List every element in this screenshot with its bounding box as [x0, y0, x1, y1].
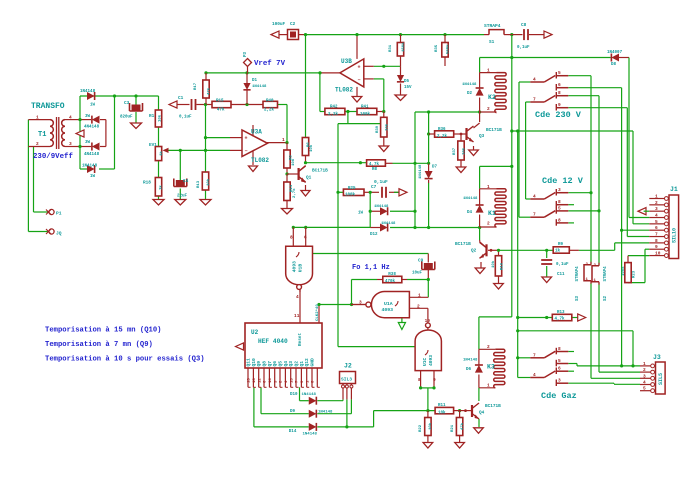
svg-text:4: 4 — [533, 194, 536, 200]
svg-text:R37: R37 — [453, 147, 457, 155]
svg-text:4: 4 — [533, 372, 536, 378]
svg-text:Q8: Q8 — [262, 361, 268, 367]
svg-text:470k: 470k — [385, 279, 396, 284]
svg-text:R25: R25 — [348, 187, 356, 191]
svg-text:Cde 230 V: Cde 230 V — [535, 110, 582, 120]
svg-text:−: − — [357, 77, 360, 83]
svg-text:K3: K3 — [487, 364, 495, 371]
svg-text:1: 1 — [36, 114, 39, 120]
svg-text:TRANSFO: TRANSFO — [31, 102, 65, 111]
svg-text:1W: 1W — [90, 175, 96, 179]
svg-text:9: 9 — [655, 244, 658, 250]
svg-text:10k: 10k — [428, 422, 433, 430]
svg-text:U3A: U3A — [251, 129, 262, 136]
svg-text:BC171B: BC171B — [455, 242, 471, 247]
svg-text:C7: C7 — [371, 185, 377, 190]
svg-text:8: 8 — [558, 346, 561, 352]
svg-text:15V: 15V — [404, 86, 412, 90]
svg-text:C4: C4 — [183, 179, 189, 184]
svg-text:R1: R1 — [149, 114, 155, 119]
svg-text:D7: D7 — [432, 166, 438, 170]
svg-text:1N4148: 1N4148 — [318, 410, 333, 414]
svg-text:R10: R10 — [501, 262, 505, 270]
svg-text:D10: D10 — [290, 393, 298, 397]
svg-text:13: 13 — [290, 378, 294, 383]
svg-text:R9: R9 — [558, 243, 564, 247]
svg-text:R15: R15 — [216, 100, 224, 104]
svg-text:10k: 10k — [385, 123, 390, 131]
svg-text:Q2: Q2 — [294, 361, 300, 367]
svg-text:100k: 100k — [360, 112, 371, 117]
svg-text:1: 1 — [655, 194, 658, 200]
svg-text:10k: 10k — [438, 411, 446, 416]
svg-text:10k: 10k — [462, 147, 467, 155]
svg-text:C3: C3 — [124, 101, 130, 106]
svg-text:4: 4 — [643, 380, 646, 386]
svg-text:6: 6 — [558, 82, 561, 88]
svg-text:Q3: Q3 — [288, 361, 294, 367]
svg-text:U1A: U1A — [384, 301, 393, 307]
svg-text:1: 1 — [418, 293, 421, 299]
svg-text:7: 7 — [655, 232, 658, 238]
svg-text:47k: 47k — [217, 108, 225, 113]
svg-text:S1: S1 — [489, 40, 495, 45]
svg-text:1k: 1k — [159, 151, 164, 156]
svg-text:R8: R8 — [372, 168, 378, 172]
svg-text:K2: K2 — [488, 94, 496, 101]
svg-text:R38: R38 — [388, 273, 396, 277]
svg-text:−: − — [245, 148, 248, 154]
svg-text:1N4007: 1N4007 — [607, 51, 623, 55]
svg-text:S3: S3 — [576, 295, 580, 301]
svg-text:Q10: Q10 — [251, 358, 257, 367]
svg-text:R36: R36 — [438, 128, 446, 132]
svg-text:R18: R18 — [143, 181, 151, 186]
svg-text:6: 6 — [304, 234, 307, 240]
svg-text:1N4148: 1N4148 — [252, 85, 267, 89]
svg-text:Temporisation à 15 mn (Q10): Temporisation à 15 mn (Q10) — [45, 327, 161, 335]
svg-text:R13: R13 — [197, 180, 201, 188]
svg-text:STRAP4: STRAP4 — [604, 266, 608, 282]
svg-text:10k: 10k — [206, 178, 211, 186]
svg-text:5: 5 — [558, 205, 561, 211]
svg-text:100k: 100k — [621, 266, 626, 276]
svg-text:Q3: Q3 — [479, 134, 485, 139]
svg-text:2: 2 — [487, 221, 490, 227]
svg-text:0,1uF: 0,1uF — [374, 179, 388, 185]
svg-text:4093: 4093 — [382, 307, 394, 313]
svg-text:10: 10 — [655, 251, 661, 257]
svg-text:SIL10: SIL10 — [672, 228, 678, 243]
svg-text:230/9Veff: 230/9Veff — [33, 153, 73, 161]
svg-text:47k: 47k — [207, 87, 212, 95]
svg-text:1k: 1k — [555, 249, 561, 254]
svg-text:SIL3: SIL3 — [341, 377, 352, 383]
svg-text:J2: J2 — [344, 363, 352, 370]
svg-text:2: 2 — [643, 367, 646, 373]
svg-text:9: 9 — [558, 102, 561, 108]
svg-text:1N4148: 1N4148 — [463, 197, 478, 201]
svg-text:7: 7 — [533, 97, 536, 103]
svg-text:Temporisation à 10 s pour essa: Temporisation à 10 s pour essais (Q3) — [45, 356, 205, 364]
svg-text:3: 3 — [655, 206, 658, 212]
svg-text:6: 6 — [655, 225, 658, 231]
svg-text:Q9: Q9 — [256, 361, 262, 367]
svg-text:5: 5 — [558, 70, 561, 76]
svg-text:10k: 10k — [158, 114, 163, 122]
svg-text:4N4148: 4N4148 — [84, 153, 100, 157]
svg-text:1k: 1k — [159, 185, 164, 190]
svg-text:1W: 1W — [90, 104, 96, 108]
svg-text:SIL5: SIL5 — [658, 373, 664, 385]
svg-text:10k: 10k — [491, 260, 496, 268]
svg-text:5: 5 — [558, 358, 561, 364]
svg-text:K1: K1 — [488, 210, 496, 217]
svg-text:J3: J3 — [653, 354, 661, 361]
svg-text:1: 1 — [487, 383, 490, 389]
svg-text:3: 3 — [558, 378, 561, 384]
svg-text:100k: 100k — [345, 193, 356, 198]
svg-text:D14: D14 — [289, 430, 297, 434]
svg-text:2: 2 — [487, 344, 490, 350]
svg-text:4: 4 — [69, 114, 72, 120]
svg-text:4093: 4093 — [292, 261, 298, 272]
svg-text:9: 9 — [433, 377, 436, 383]
svg-text:15: 15 — [248, 378, 252, 383]
svg-text:0,1uF: 0,1uF — [517, 46, 530, 50]
svg-text:D1: D1 — [252, 79, 258, 83]
svg-text:8: 8 — [558, 217, 561, 223]
svg-text:R22: R22 — [419, 424, 423, 432]
svg-text:CLK2*40: CLK2*40 — [315, 304, 320, 321]
svg-text:Q1: Q1 — [299, 361, 305, 367]
svg-text:4: 4 — [655, 213, 658, 219]
svg-text:10k: 10k — [309, 144, 314, 152]
svg-text:47k: 47k — [460, 422, 465, 430]
svg-text:4: 4 — [533, 77, 536, 83]
svg-text:R39: R39 — [376, 125, 380, 133]
svg-text:R41: R41 — [361, 106, 369, 110]
svg-text:10k: 10k — [291, 158, 296, 166]
svg-text:STRAP4: STRAP4 — [484, 23, 501, 29]
svg-text:8: 8 — [418, 377, 421, 383]
svg-text:Cde 12 V: Cde 12 V — [542, 176, 584, 186]
svg-text:7: 7 — [533, 352, 536, 358]
svg-text:1: 1 — [487, 184, 490, 190]
svg-text:Fo 1,1 Hz: Fo 1,1 Hz — [352, 264, 390, 272]
svg-text:C2: C2 — [290, 22, 296, 27]
svg-text:3: 3 — [69, 141, 72, 147]
svg-text:R40: R40 — [266, 100, 274, 104]
svg-text:1N4148: 1N4148 — [303, 433, 318, 437]
svg-text:1N4148: 1N4148 — [82, 165, 98, 169]
svg-text:8: 8 — [558, 199, 561, 205]
svg-text:4N4148: 4N4148 — [84, 126, 100, 130]
svg-text:Vref 7V: Vref 7V — [254, 60, 286, 68]
svg-text:P3: P3 — [244, 51, 248, 57]
svg-text:D12: D12 — [370, 233, 378, 237]
svg-text:R21: R21 — [451, 424, 455, 432]
svg-text:8: 8 — [558, 90, 561, 96]
svg-text:5: 5 — [655, 219, 658, 225]
svg-text:R31: R31 — [389, 44, 393, 52]
svg-text:TL082: TL082 — [335, 87, 353, 94]
svg-text:0,1uF: 0,1uF — [556, 263, 569, 267]
svg-text:1: 1 — [282, 137, 285, 143]
svg-text:R35: R35 — [435, 44, 439, 52]
svg-text:2,2k: 2,2k — [264, 108, 275, 113]
svg-text:D4: D4 — [467, 211, 473, 215]
svg-text:560k: 560k — [446, 44, 451, 54]
svg-text:6: 6 — [558, 366, 561, 372]
svg-text:Q7: Q7 — [267, 361, 273, 367]
svg-text:STRAP4: STRAP4 — [576, 266, 580, 282]
svg-text:22uF: 22uF — [177, 195, 188, 199]
svg-text:1: 1 — [487, 68, 490, 74]
svg-text:1N4148: 1N4148 — [462, 83, 477, 87]
svg-text:J1: J1 — [670, 186, 678, 193]
svg-text:+: + — [357, 64, 360, 70]
svg-text:D8: D8 — [611, 63, 617, 67]
svg-text:Q11: Q11 — [246, 358, 252, 367]
svg-text:2,2k: 2,2k — [328, 112, 339, 117]
svg-text:R23: R23 — [633, 270, 637, 278]
svg-text:BC171B: BC171B — [485, 404, 501, 409]
svg-text:8: 8 — [290, 234, 293, 240]
svg-text:Temporisation à 7 mn (Q9): Temporisation à 7 mn (Q9) — [45, 341, 153, 349]
svg-text:D6: D6 — [466, 368, 472, 372]
svg-text:D2: D2 — [467, 92, 473, 96]
svg-text:7: 7 — [533, 212, 536, 218]
svg-text:T1: T1 — [38, 131, 46, 139]
svg-text:4093: 4093 — [428, 355, 434, 366]
svg-text:1W: 1W — [358, 212, 364, 216]
svg-text:D5: D5 — [404, 80, 410, 84]
svg-text:1N4148: 1N4148 — [381, 222, 396, 226]
svg-text:Q4: Q4 — [283, 361, 289, 367]
svg-text:14: 14 — [269, 378, 273, 383]
svg-text:GND: GND — [310, 358, 316, 367]
svg-text:2,7k: 2,7k — [292, 188, 297, 198]
svg-text:820uF: 820uF — [120, 116, 133, 120]
svg-text:Q5: Q5 — [278, 361, 284, 367]
svg-text:1N4148: 1N4148 — [80, 90, 96, 94]
svg-text:BC171B: BC171B — [312, 169, 328, 174]
svg-text:+: + — [245, 136, 248, 142]
svg-text:BC171B: BC171B — [486, 128, 502, 133]
svg-text:Q2: Q2 — [471, 248, 477, 253]
svg-text:13: 13 — [253, 378, 257, 383]
svg-text:C9: C9 — [418, 259, 424, 264]
svg-text:C8: C8 — [521, 23, 527, 28]
svg-text:1: 1 — [643, 361, 646, 367]
svg-text:Q12: Q12 — [304, 358, 310, 367]
svg-text:JQ: JQ — [56, 231, 62, 237]
svg-text:12: 12 — [258, 378, 262, 383]
svg-text:Reset: Reset — [298, 332, 303, 346]
svg-text:R13: R13 — [557, 311, 565, 315]
svg-text:2: 2 — [417, 304, 420, 310]
svg-text:4,7k: 4,7k — [369, 162, 380, 167]
svg-text:P1: P1 — [56, 211, 62, 217]
svg-text:R42: R42 — [330, 106, 338, 110]
svg-text:10: 10 — [425, 318, 431, 324]
svg-text:2: 2 — [655, 200, 658, 206]
svg-text:3: 3 — [359, 300, 362, 306]
svg-text:Q6: Q6 — [272, 361, 278, 367]
svg-text:U2: U2 — [251, 329, 259, 336]
svg-text:1N4148: 1N4148 — [374, 205, 389, 209]
svg-text:2: 2 — [36, 141, 39, 147]
svg-text:U1B: U1B — [298, 264, 304, 273]
svg-text:3: 3 — [558, 187, 561, 193]
svg-text:TL082: TL082 — [251, 157, 269, 164]
svg-text:1N4148: 1N4148 — [463, 359, 478, 363]
svg-text:150k: 150k — [401, 42, 406, 52]
svg-text:5: 5 — [643, 386, 646, 392]
svg-text:C1: C1 — [178, 96, 184, 101]
svg-text:2: 2 — [487, 106, 490, 112]
svg-text:Q1: Q1 — [306, 176, 312, 181]
svg-text:0,1uF: 0,1uF — [179, 116, 192, 120]
svg-text:3: 3 — [643, 373, 646, 379]
svg-text:Cde Gaz: Cde Gaz — [541, 391, 577, 401]
svg-text:HEF 4040: HEF 4040 — [258, 338, 288, 345]
svg-text:1N4148: 1N4148 — [419, 164, 423, 179]
svg-text:100uF: 100uF — [272, 22, 286, 27]
svg-text:2,2k: 2,2k — [437, 134, 448, 139]
svg-text:3W: 3W — [85, 115, 91, 119]
svg-text:U1C: U1C — [422, 357, 428, 366]
svg-text:4,7k: 4,7k — [555, 316, 566, 321]
svg-text:1N4148: 1N4148 — [302, 393, 317, 397]
svg-text:D9: D9 — [290, 410, 296, 414]
svg-text:11: 11 — [294, 313, 300, 319]
svg-text:3W: 3W — [85, 141, 91, 145]
svg-text:R17: R17 — [194, 82, 198, 90]
svg-text:4: 4 — [296, 294, 299, 300]
svg-text:EV1: EV1 — [149, 143, 157, 148]
svg-text:U3B: U3B — [341, 58, 352, 65]
svg-text:Q4: Q4 — [479, 411, 485, 416]
svg-text:S2: S2 — [604, 295, 608, 301]
svg-text:R11: R11 — [438, 404, 446, 408]
svg-text:8: 8 — [655, 238, 658, 244]
svg-text:10uF: 10uF — [412, 272, 423, 276]
svg-text:C11: C11 — [557, 273, 565, 277]
